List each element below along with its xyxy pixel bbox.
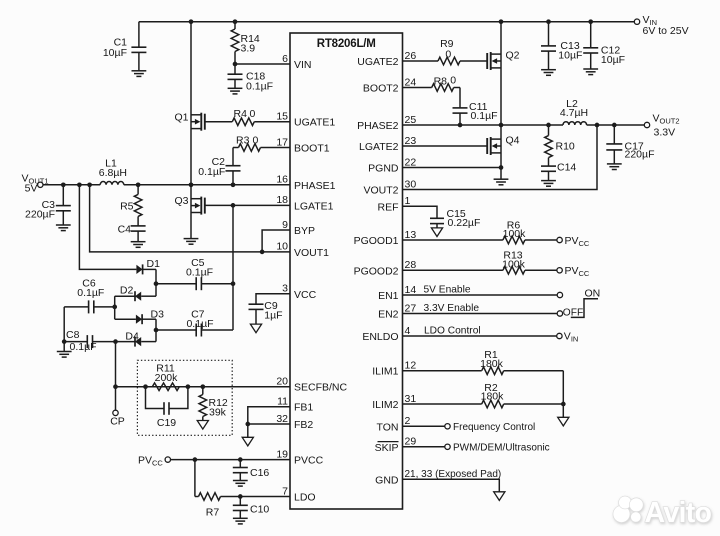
ground C4 <box>131 241 146 243</box>
svg-text:SECFB/NC: SECFB/NC <box>294 382 348 394</box>
ground C1 <box>132 70 147 72</box>
svg-text:RT8206L/M: RT8206L/M <box>317 38 376 50</box>
svg-text:FB2: FB2 <box>294 419 313 431</box>
pin 16 PHASE1 label <box>276 174 335 192</box>
terminal EN2 <box>557 311 562 316</box>
resistor R2 180k <box>403 382 564 408</box>
pin 19 PVCC label <box>276 448 323 466</box>
svg-text:D4: D4 <box>125 330 139 342</box>
resistor R9 0 <box>403 38 488 65</box>
svg-text:Q4: Q4 <box>506 135 520 147</box>
pin 27 EN2 label <box>378 302 416 320</box>
resistor R14 3.9 <box>231 22 260 64</box>
wire ILIM link <box>562 371 564 404</box>
svg-text:VOUT2: VOUT2 <box>363 185 398 197</box>
pin 15 UGATE1 label <box>276 111 335 129</box>
svg-text:TON: TON <box>377 421 399 433</box>
watermark Avito <box>613 496 711 529</box>
svg-text:26: 26 <box>405 50 417 62</box>
ground Q3 <box>184 238 199 240</box>
svg-text:R7: R7 <box>206 506 220 518</box>
svg-text:12: 12 <box>405 360 417 372</box>
svg-text:ILIM1: ILIM1 <box>372 366 398 378</box>
wire chargepump drive vertical <box>232 205 234 330</box>
svg-text:PVCC: PVCC <box>138 454 163 467</box>
resistor R3 0 <box>233 135 290 166</box>
svg-text:0: 0 <box>253 135 259 147</box>
ground C16 <box>233 480 248 482</box>
pin 20 SECFB/NC label <box>276 376 347 394</box>
svg-text:VIN: VIN <box>294 59 312 71</box>
svg-text:25: 25 <box>405 114 417 126</box>
svg-text:15: 15 <box>276 111 288 123</box>
terminal VIN <box>634 14 688 37</box>
ground C10 <box>233 517 248 519</box>
transistor Q3 <box>174 185 204 239</box>
svg-text:VOUT2: VOUT2 <box>653 113 680 126</box>
svg-text:ON: ON <box>585 287 601 299</box>
svg-text:0.1µF: 0.1µF <box>186 318 213 330</box>
svg-text:LGATE1: LGATE1 <box>294 200 334 212</box>
svg-text:180k: 180k <box>481 391 505 403</box>
inductor L1 6.8uH <box>99 157 127 185</box>
svg-text:PVCC: PVCC <box>565 235 590 248</box>
wire TON <box>403 425 445 427</box>
svg-text:19: 19 <box>276 448 288 460</box>
svg-text:4.7µH: 4.7µH <box>560 107 588 119</box>
ground GND pin <box>494 492 505 501</box>
pin 1 REF label <box>378 195 411 213</box>
terminal VOUT2 <box>644 113 679 139</box>
capacitor C6 0.1uF <box>64 278 115 314</box>
pin 29 SKIP label <box>375 436 417 454</box>
terminal PGOOD1 PVCC <box>557 235 590 248</box>
ground C14 <box>541 180 556 182</box>
svg-text:Avito: Avito <box>645 497 712 529</box>
capacitor C1 10uF <box>103 22 147 71</box>
ground C15 <box>431 228 442 237</box>
svg-text:R5: R5 <box>120 200 134 212</box>
node rail-R14 <box>233 19 238 24</box>
terminal PVCC <box>138 454 171 467</box>
svg-text:REF: REF <box>378 201 399 213</box>
capacitor C15 0.22uF <box>430 208 480 229</box>
svg-text:C8: C8 <box>66 329 80 341</box>
node SECFB-CP <box>113 384 118 389</box>
svg-text:0: 0 <box>445 49 451 61</box>
transistor Q1 <box>174 22 204 185</box>
terminal EN1 <box>557 292 562 297</box>
svg-text:VCC: VCC <box>294 289 317 301</box>
svg-text:C4: C4 <box>118 224 132 236</box>
svg-text:ENLDO: ENLDO <box>362 331 398 343</box>
wire PHASE2 row <box>403 124 564 126</box>
svg-text:100k: 100k <box>502 259 526 271</box>
node C2-PHASE1 <box>231 182 236 187</box>
node ILIM <box>561 402 566 407</box>
node C19 left <box>143 384 148 389</box>
node Q2-source <box>499 123 504 128</box>
capacitor C7 0.1uF <box>156 309 233 337</box>
svg-text:22: 22 <box>405 156 417 168</box>
svg-text:29: 29 <box>405 436 417 448</box>
svg-text:0.1µF: 0.1µF <box>246 80 273 92</box>
svg-text:27: 27 <box>405 302 417 314</box>
svg-text:10µF: 10µF <box>558 49 582 61</box>
svg-text:39k: 39k <box>209 406 227 418</box>
pin 3 VCC label <box>282 283 316 301</box>
pin 17 BOOT1 label <box>276 136 329 154</box>
node rail-C12 <box>588 19 593 24</box>
node R12 <box>200 384 205 389</box>
svg-text:30: 30 <box>405 178 417 190</box>
node Q4-PGND <box>499 165 504 170</box>
pin 21, 33 (Exposed Pad) GND label <box>375 469 501 486</box>
node C19 right <box>186 384 191 389</box>
svg-text:21, 33 (Exposed Pad): 21, 33 (Exposed Pad) <box>405 469 502 480</box>
svg-text:FB1: FB1 <box>294 402 313 414</box>
svg-text:5V: 5V <box>25 183 38 195</box>
pin 10 VOUT1 label <box>276 241 329 259</box>
pin 11 FB1 label <box>277 396 313 414</box>
svg-text:3.9: 3.9 <box>241 43 256 55</box>
wire D4 to SECFB <box>115 342 117 387</box>
terminal SKIP <box>445 443 550 454</box>
svg-text:0.1µF: 0.1µF <box>471 110 498 122</box>
svg-text:R8: R8 <box>434 75 448 87</box>
terminal VOUT1 <box>22 172 49 194</box>
svg-text:6: 6 <box>282 53 288 65</box>
svg-text:PGOOD2: PGOOD2 <box>354 265 399 277</box>
svg-text:1: 1 <box>405 195 411 207</box>
resistor R12 39k <box>199 387 228 421</box>
svg-text:14: 14 <box>405 284 417 296</box>
inductor L2 4.7uH <box>560 98 588 125</box>
svg-text:CP: CP <box>110 415 125 427</box>
resistor R1 180k <box>403 349 564 375</box>
wire PHASE1 row right <box>124 184 290 186</box>
wire EN2 <box>403 303 558 314</box>
capacitor C9 1uF <box>249 300 283 324</box>
pin 30 VOUT2 label <box>363 178 416 196</box>
svg-text:6V to 25V: 6V to 25V <box>643 25 689 37</box>
svg-text:OFF: OFF <box>563 308 583 319</box>
node VOUT2 feedback <box>595 123 600 128</box>
svg-text:7: 7 <box>282 485 288 497</box>
svg-text:VIN: VIN <box>564 331 579 344</box>
svg-text:24: 24 <box>405 76 417 88</box>
svg-text:5V Enable: 5V Enable <box>424 285 471 296</box>
svg-text:UGATE2: UGATE2 <box>357 56 398 68</box>
node rail-Q2 <box>499 19 504 24</box>
node D1 branch <box>77 182 82 187</box>
svg-text:Q2: Q2 <box>506 50 520 62</box>
ground R12 <box>197 421 208 430</box>
svg-text:220µF: 220µF <box>625 149 655 161</box>
wire PHASE1 row left <box>43 184 100 186</box>
pin 2 TON label <box>377 415 411 433</box>
svg-text:EN1: EN1 <box>378 290 399 302</box>
wire LGATE1 <box>205 204 290 206</box>
wire PVCC row <box>171 459 291 461</box>
wire PGND <box>403 167 502 169</box>
ground C8 <box>57 342 72 358</box>
svg-text:Q1: Q1 <box>174 111 188 123</box>
svg-text:BOOT1: BOOT1 <box>294 143 330 155</box>
svg-text:0.22µF: 0.22µF <box>448 217 481 229</box>
svg-text:220µF: 220µF <box>25 208 55 220</box>
wire SECFB row <box>116 386 291 388</box>
svg-text:200k: 200k <box>155 372 179 384</box>
terminal ENLDO VIN <box>557 331 579 344</box>
resistor R4 0 <box>205 108 290 125</box>
svg-text:PVCC: PVCC <box>565 265 590 278</box>
svg-text:31: 31 <box>405 393 417 405</box>
resistor R5 <box>120 185 142 226</box>
capacitor C14 <box>541 162 576 181</box>
resistor R13 100k PGOOD2 <box>403 250 557 275</box>
svg-text:R10: R10 <box>556 141 575 153</box>
transistor Q4 <box>487 125 519 168</box>
svg-text:0.1µF: 0.1µF <box>186 267 213 279</box>
ground C17 <box>607 163 622 165</box>
svg-text:0.1µF: 0.1µF <box>77 287 104 299</box>
svg-text:GND: GND <box>375 474 399 486</box>
svg-text:D2: D2 <box>120 285 134 297</box>
wire FB1 <box>248 407 290 424</box>
transistor Q2 <box>487 22 519 125</box>
svg-text:0: 0 <box>450 75 456 87</box>
node LGATE1 chargepump <box>231 203 236 208</box>
node BYP-VOUT1 <box>260 250 265 255</box>
wire D1 branch <box>79 185 136 270</box>
pin 26 UGATE2 label <box>357 50 416 68</box>
svg-text:R4: R4 <box>234 108 248 120</box>
svg-text:3: 3 <box>282 283 288 295</box>
diode D4 <box>116 330 157 347</box>
svg-text:10µF: 10µF <box>601 54 625 66</box>
wire VIN pin6 <box>235 63 290 65</box>
capacitor C13 10uF <box>541 22 582 70</box>
svg-text:17: 17 <box>276 136 288 148</box>
node A C5 <box>154 281 159 286</box>
ground Q4 <box>494 168 509 185</box>
svg-text:28: 28 <box>405 259 417 271</box>
ground ILIM <box>558 404 569 426</box>
svg-text:32: 32 <box>276 413 288 425</box>
node FB <box>245 422 250 427</box>
wire VCC <box>256 294 290 304</box>
ground C9 <box>250 324 261 333</box>
node C8-D4 <box>113 339 118 344</box>
ground C13 <box>541 69 556 71</box>
terminal CP <box>110 387 125 428</box>
svg-text:PWM/DEM/Ultrasonic: PWM/DEM/Ultrasonic <box>453 443 550 454</box>
box R11 R12 C19 dashed <box>137 360 232 435</box>
pin 32 FB2 label <box>276 413 313 431</box>
wire FB2 <box>248 423 290 425</box>
svg-text:20: 20 <box>276 376 288 388</box>
svg-text:BOOT2: BOOT2 <box>363 83 399 95</box>
svg-text:2: 2 <box>405 415 411 427</box>
pin 6 VIN label <box>282 53 311 71</box>
pin 25 PHASE2 label <box>357 114 416 132</box>
pin 22 PGND label <box>368 156 416 174</box>
node rail-Q1 <box>189 19 194 24</box>
svg-text:SKIP: SKIP <box>375 442 399 454</box>
node Q1-source <box>189 182 194 187</box>
svg-text:11: 11 <box>277 396 288 408</box>
node C8 gnd <box>62 339 67 344</box>
capacitor C5 0.1uF <box>156 257 233 290</box>
pin 4 ENLDO label <box>362 325 410 343</box>
resistor R8 0 <box>403 75 461 108</box>
pin 14 EN1 label <box>378 284 416 302</box>
op-amp/IC body U1 RT8206L/M <box>290 33 403 509</box>
svg-text:10µF: 10µF <box>103 47 127 59</box>
node B C7 <box>154 328 159 333</box>
capacitor C17 220uF <box>606 125 654 164</box>
wire VIN top rail <box>139 21 634 23</box>
node LDO-C10 <box>238 494 243 499</box>
svg-text:0.1µF: 0.1µF <box>198 166 225 178</box>
wire EN1 <box>403 285 558 296</box>
svg-text:3.3V Enable: 3.3V Enable <box>424 303 480 314</box>
pin 18 LGATE1 label <box>276 194 333 212</box>
diode D2 <box>115 284 156 307</box>
capacitor C8 0.1uF <box>64 329 115 353</box>
svg-text:PHASE2: PHASE2 <box>357 120 399 132</box>
pin 28 PGOOD2 label <box>354 259 417 277</box>
svg-text:0.1µF: 0.1µF <box>70 341 97 353</box>
capacitor C2 0.1uF <box>198 156 240 185</box>
wire C6 left link <box>63 307 65 342</box>
wire GND exposed pad <box>403 479 500 492</box>
switch ON/OFF <box>563 287 600 318</box>
capacitor C4 <box>118 224 146 242</box>
wire REF <box>403 206 438 218</box>
node C3 <box>61 182 66 187</box>
capacitor C10 <box>233 497 270 519</box>
capacitor C19 <box>146 387 188 429</box>
ground C3 <box>56 224 71 226</box>
svg-text:C10: C10 <box>250 504 269 516</box>
svg-text:PGOOD1: PGOOD1 <box>354 235 399 247</box>
ground FB <box>242 424 253 446</box>
svg-text:D1: D1 <box>147 258 161 270</box>
pin 9 BYP label <box>282 219 315 237</box>
svg-text:EN2: EN2 <box>378 309 399 321</box>
terminal PGOOD2 PVCC <box>557 265 590 278</box>
svg-text:BYP: BYP <box>294 225 315 237</box>
svg-text:C14: C14 <box>557 162 576 174</box>
svg-text:9: 9 <box>282 219 288 231</box>
svg-text:PVCC: PVCC <box>294 455 324 467</box>
pin 12 ILIM1 label <box>372 360 416 378</box>
svg-text:18: 18 <box>276 194 288 206</box>
svg-text:ILIM2: ILIM2 <box>372 399 398 411</box>
svg-text:LDO: LDO <box>294 492 316 504</box>
svg-text:10: 10 <box>276 241 288 253</box>
svg-text:1µF: 1µF <box>264 310 282 322</box>
svg-text:13: 13 <box>405 229 417 241</box>
svg-text:3.3V: 3.3V <box>654 126 676 138</box>
pin 24 BOOT2 label <box>363 76 416 94</box>
svg-text:16: 16 <box>276 174 288 186</box>
svg-text:180k: 180k <box>480 358 504 370</box>
svg-text:R3: R3 <box>236 135 250 147</box>
svg-text:LGATE2: LGATE2 <box>359 141 399 153</box>
pin 31 ILIM2 label <box>372 393 416 411</box>
wire BYP <box>262 230 290 252</box>
node PVCC-C16 <box>238 457 243 462</box>
svg-text:C19: C19 <box>157 417 176 429</box>
svg-text:23: 23 <box>405 135 417 147</box>
wire VOUT1 pin10 <box>90 185 290 252</box>
svg-text:D3: D3 <box>151 308 165 320</box>
node PVCC-R7 <box>193 457 198 462</box>
svg-text:VOUT1: VOUT1 <box>294 247 329 259</box>
capacitor C16 <box>233 460 270 481</box>
svg-text:PGND: PGND <box>368 163 399 175</box>
node C5-pump <box>231 281 236 286</box>
wire VOUT2 rail <box>587 124 645 126</box>
pin 7 LDO label <box>282 485 315 503</box>
resistor R7 <box>195 493 290 519</box>
svg-text:C16: C16 <box>250 467 269 479</box>
node C11-PHASE2 <box>458 123 463 128</box>
node R10-L2 <box>546 123 551 128</box>
node VOUT1 branch <box>87 182 92 187</box>
node C6-D2 <box>112 305 117 310</box>
wire LGATE2 <box>403 145 488 147</box>
node rail-C13 <box>546 19 551 24</box>
capacitor C12 10uF <box>583 22 625 69</box>
svg-text:PHASE1: PHASE1 <box>294 180 336 192</box>
ground C12 <box>583 68 598 70</box>
pin 13 PGOOD1 label <box>354 229 417 247</box>
node C17 <box>612 123 617 128</box>
wire R7 branch <box>194 460 196 497</box>
resistor R10 <box>545 125 575 166</box>
resistor R6 100k PGOOD1 <box>403 219 557 244</box>
svg-text:Frequency Control: Frequency Control <box>453 422 535 433</box>
capacitor C18 0.1uF <box>228 64 274 92</box>
capacitor C3 220uF <box>25 185 71 225</box>
svg-text:LDO Control: LDO Control <box>424 326 481 337</box>
svg-text:4: 4 <box>405 325 411 337</box>
capacitor C11 0.1uF <box>453 101 498 125</box>
node VIN-C18 <box>233 62 238 67</box>
svg-text:100k: 100k <box>503 228 527 240</box>
pin 23 LGATE2 label <box>359 135 416 153</box>
svg-text:0: 0 <box>250 108 256 120</box>
svg-text:6.8µH: 6.8µH <box>99 167 127 179</box>
terminal TON <box>445 422 535 433</box>
svg-text:UGATE1: UGATE1 <box>294 117 335 129</box>
wire SKIP <box>403 446 445 448</box>
wire ENLDO <box>403 326 557 337</box>
diode D3 <box>115 307 164 330</box>
ground C18 <box>228 87 243 89</box>
wire VOUT2 pin30 <box>403 125 598 190</box>
diode D1 <box>136 258 160 284</box>
svg-text:Q3: Q3 <box>174 195 188 207</box>
resistor R11 200k <box>152 362 179 390</box>
node R5 <box>136 182 141 187</box>
